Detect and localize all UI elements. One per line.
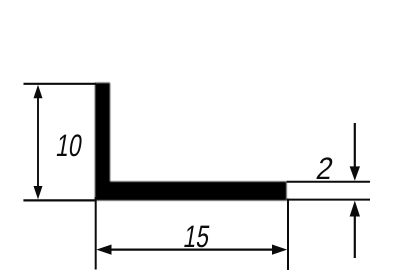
dimension line 15 (horizontal, double arrow)	[108, 249, 274, 251]
arrowhead down (dim 10 bottom)	[34, 186, 43, 199]
arrowhead up (dim 2 lower)	[350, 201, 360, 217]
extension line bottom edge extended right (dim 2)	[287, 199, 371, 201]
extension line right (dim 15)	[287, 199, 289, 271]
extension line top edge extended right (dim 2)	[287, 181, 371, 183]
arrowhead left (dim 15)	[96, 245, 111, 255]
svg-text:10: 10	[54, 128, 85, 163]
angle profile L-shape (vertical leg + horizontal leg)	[95, 83, 287, 201]
arrowhead up (dim 10 top)	[34, 85, 43, 98]
arrowhead right (dim 15)	[272, 245, 287, 255]
extension line left (dim 15)	[95, 197, 97, 270]
lower arrow leader line (dim 2)	[354, 214, 356, 258]
upper arrow leader line (dim 2)	[354, 123, 356, 168]
arrowhead down (dim 2 upper)	[350, 166, 360, 180]
dimension line 10 (vertical, double arrow)	[37, 96, 39, 188]
extension line bottom of profile extended left (dim 10)	[23, 199, 95, 201]
extension line top of vertical leg (dim 10)	[24, 83, 97, 85]
